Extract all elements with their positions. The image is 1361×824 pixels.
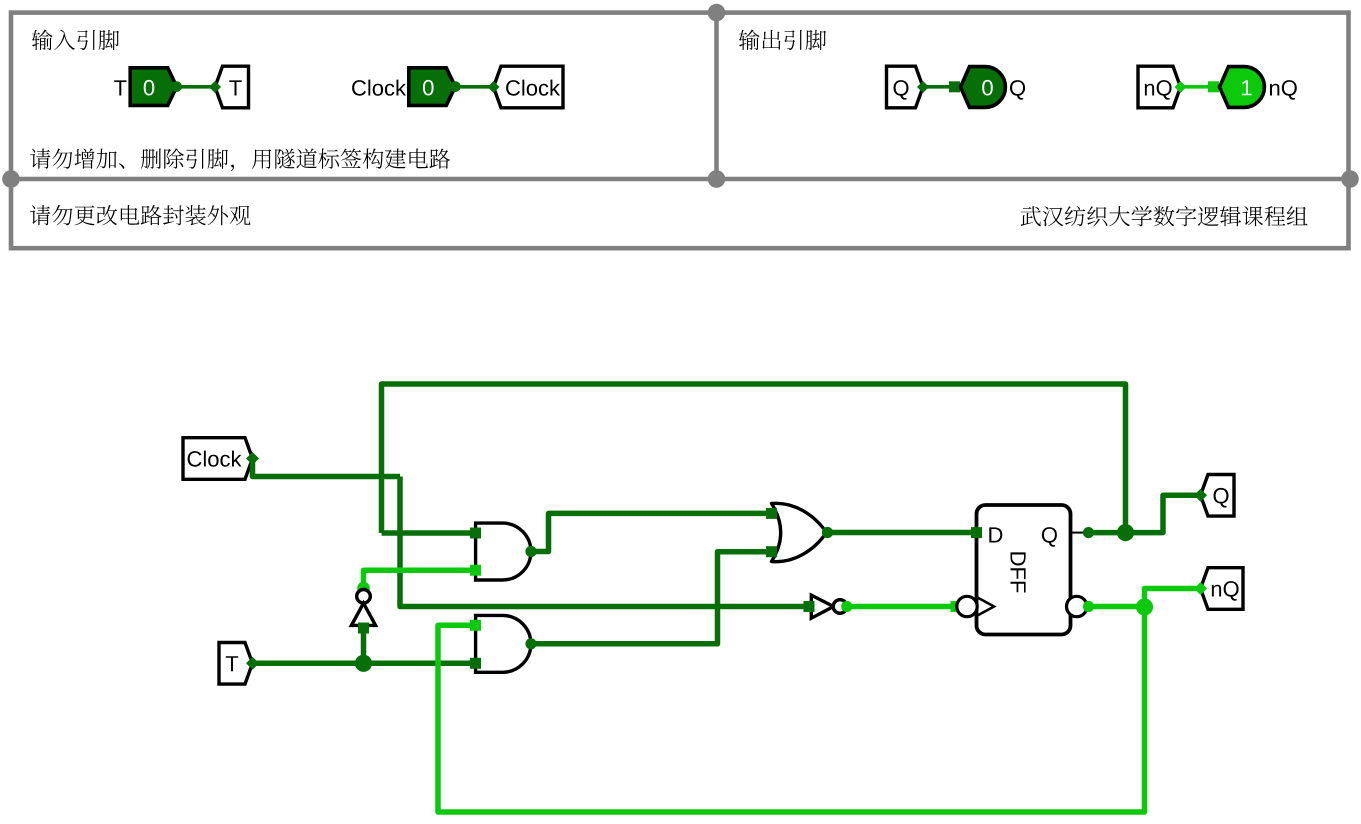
tunnel T (pin row) bbox=[209, 66, 249, 108]
text note 请勿增加、删除引脚，用隧道标签构建电路 bbox=[30, 148, 450, 171]
output pin Q (value 0) bbox=[961, 67, 1026, 108]
AND gate U2 bbox=[470, 615, 537, 672]
tunnel Clock (pin row) bbox=[488, 66, 564, 108]
tunnel Clock (circuit) bbox=[183, 438, 253, 480]
AND gate U1 bbox=[470, 523, 537, 580]
wire tunnel Q to output pin Q bbox=[923, 81, 960, 92]
junction node T / NOT1 input bbox=[355, 655, 372, 672]
input pin T (value 0) bbox=[114, 68, 182, 106]
wire junction Q to tunnel Q bbox=[1126, 495, 1201, 532]
wire Q feedback to AND1 input 1 bbox=[382, 530, 476, 536]
wire Q feedback top loop bbox=[382, 384, 1126, 533]
text label 输入引脚 bbox=[32, 30, 119, 51]
tunnel nQ (pin row) bbox=[1138, 66, 1187, 108]
wire NOT1 output to AND1 input 2 bbox=[364, 570, 476, 588]
text note 请勿更改电路封装外观 bbox=[30, 205, 251, 225]
tunnel Q (circuit) bbox=[1201, 475, 1235, 517]
NOT gate U5 (clock inverter) bbox=[804, 595, 853, 618]
text note 武汉纺织大学数字逻辑课程组 bbox=[1021, 206, 1308, 226]
tunnel T (circuit) bbox=[219, 643, 253, 685]
wire tunnel nQ to output pin nQ bbox=[1181, 81, 1220, 92]
wire NOT2 output to DFF clock input bbox=[847, 601, 962, 612]
wire NOT1 input stub bbox=[361, 628, 367, 663]
wire DFF Q to junction bbox=[1089, 530, 1126, 536]
wire OR output to DFF D input bbox=[828, 530, 977, 536]
wire DFF nQ to junction bbox=[1083, 601, 1145, 612]
output pin nQ (value 1) bbox=[1220, 67, 1297, 108]
junction diamond T tunnel bbox=[246, 657, 259, 670]
junction node Q bbox=[1117, 524, 1134, 541]
wire Clock tunnel to node A bbox=[253, 459, 401, 477]
wire T tunnel to AND2 input 2 bbox=[253, 661, 476, 667]
junction diamond Q tunnel bbox=[1194, 489, 1207, 502]
junction diamond nQ tunnel bbox=[1194, 582, 1207, 595]
NOT gate U4 (inverter, output up) bbox=[351, 582, 375, 634]
OR gate U3 bbox=[766, 503, 833, 561]
junction diamond Clock tunnel bbox=[246, 452, 259, 465]
wire AND2 output to OR input 2 bbox=[531, 552, 772, 644]
wire AND1 output to OR input 1 bbox=[531, 513, 772, 551]
tunnel nQ (circuit) bbox=[1201, 568, 1244, 610]
junction node nQ bbox=[1136, 598, 1153, 615]
DFF U6 bbox=[957, 505, 1087, 635]
input pin Clock (value 0) bbox=[352, 68, 461, 106]
wire junction nQ to tunnel nQ bbox=[1145, 589, 1201, 608]
wire node A down to clock distribution bbox=[400, 477, 807, 607]
wire nQ feedback bottom loop bbox=[438, 607, 1145, 812]
text label 输出引脚 bbox=[739, 30, 826, 51]
tunnel Q (pin row) bbox=[887, 66, 930, 108]
wire input pin Clock to tunnel Clock bbox=[455, 85, 494, 89]
wire DFF Q output stub bbox=[1071, 527, 1095, 538]
wire input pin T to tunnel T bbox=[176, 85, 215, 89]
